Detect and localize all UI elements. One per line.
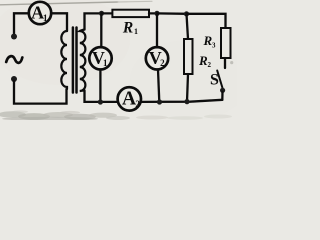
voltmeter V1 [89, 13, 111, 102]
voltmeter V2 [146, 13, 168, 102]
node junction bottom R2 [184, 99, 189, 104]
svg-text:R: R [122, 20, 133, 37]
AC source tilde [6, 56, 22, 63]
ammeter A1 [29, 2, 51, 24]
wire R1 to node V2 [149, 12, 157, 14]
resistor R3 [203, 28, 231, 58]
wire secondary bottom lead [85, 91, 119, 102]
wire node V2 to node R2 [157, 12, 187, 15]
wire node R2 to R3 corner [187, 14, 226, 28]
switch S [210, 71, 225, 100]
svg-text:R: R [203, 33, 213, 48]
svg-text:1: 1 [134, 27, 138, 36]
wire R3 bottom stub to switch [224, 58, 226, 68]
node junction top V1 [99, 11, 104, 16]
svg-text:2: 2 [208, 61, 212, 69]
svg-text:2: 2 [160, 58, 165, 68]
svg-text:1: 1 [103, 58, 108, 68]
wire from left terminal up to ammeter A1 [14, 13, 29, 33]
transformer core [73, 28, 77, 93]
resistor R1 [112, 10, 149, 37]
wire bottom left loop [14, 81, 67, 104]
wire A2 to switch corner [141, 100, 222, 102]
node junction bottom V2 [157, 99, 162, 104]
transformer secondary coil [80, 30, 86, 92]
terminal bottom dot [11, 76, 17, 82]
svg-text:R: R [198, 53, 208, 68]
resistor R2 [184, 14, 212, 102]
scan noise bottom band (decorative) [0, 61, 233, 121]
ammeter A2 [118, 87, 141, 110]
node junction top V2 [154, 11, 159, 16]
wire A1 to transformer primary top [51, 13, 67, 31]
node junction bottom V1 [98, 99, 103, 104]
terminal top dot [11, 34, 17, 40]
svg-text:3: 3 [212, 42, 216, 50]
transformer primary coil [61, 31, 67, 89]
svg-text:2: 2 [135, 99, 140, 109]
wire secondary top lead [85, 13, 102, 29]
svg-text:S: S [210, 72, 219, 89]
svg-text:A: A [122, 88, 136, 109]
scan artifact top line [0, 2, 118, 5]
svg-text:1: 1 [43, 14, 48, 24]
wire node to R1 [102, 12, 113, 14]
node junction top R2 [184, 11, 189, 16]
